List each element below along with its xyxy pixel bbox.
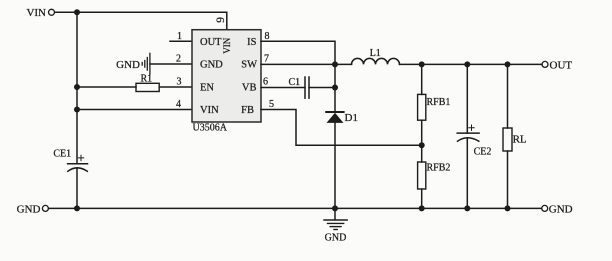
resistor RFB2: [418, 162, 451, 189]
svg-text:GND: GND: [325, 233, 347, 244]
svg-text:C1: C1: [289, 77, 301, 88]
node CE1 ground junction: [74, 205, 80, 211]
wire pin 5 FB feedback: [261, 110, 422, 146]
wire R1 to pin 3: [159, 86, 192, 88]
svg-text:GND: GND: [17, 203, 41, 215]
svg-text:SW: SW: [241, 60, 257, 71]
svg-text:D1: D1: [345, 112, 358, 124]
wire D1 anode to ground rail: [334, 123, 336, 208]
wire pin 1 stub: [170, 40, 192, 42]
node CE2 top junction: [464, 61, 470, 67]
svg-text:OUT: OUT: [550, 59, 573, 71]
svg-text:U3506A: U3506A: [193, 123, 228, 134]
IC U3506A: [192, 30, 261, 134]
node RFB2 ground junction: [419, 205, 425, 211]
svg-text:GND: GND: [200, 60, 223, 71]
wire GND rail: [49, 207, 542, 209]
svg-text:6: 6: [263, 76, 268, 87]
svg-text:EN: EN: [200, 83, 214, 94]
svg-text:OUT: OUT: [200, 37, 222, 48]
wire CE2 top lead: [466, 64, 468, 133]
node EN branch junction: [74, 84, 80, 90]
wire CE2 bottom lead: [466, 139, 468, 209]
wire pin 4: [77, 109, 192, 111]
terminal OUT: [542, 59, 572, 71]
inductor L1: [352, 48, 400, 64]
terminal GND left: [17, 203, 49, 215]
node RL top junction: [505, 61, 511, 67]
svg-text:1: 1: [177, 31, 182, 42]
wire output rail: [400, 63, 543, 65]
node VIN/top-left junction: [74, 9, 80, 15]
svg-text:3: 3: [177, 76, 182, 87]
resistor RL: [503, 128, 527, 151]
svg-text:8: 8: [265, 31, 270, 42]
diode D1: [326, 112, 358, 124]
wire pin 6 to C1: [261, 87, 305, 89]
wire C1 to VB node: [309, 87, 335, 89]
svg-text:RL: RL: [513, 134, 527, 146]
svg-text:4: 4: [176, 99, 181, 110]
svg-text:IS: IS: [247, 37, 256, 48]
wire RFB1 top lead: [421, 64, 423, 94]
node SW junction: [332, 61, 338, 67]
node RFB1 top junction: [419, 61, 425, 67]
wire pin 7 to L1: [261, 63, 352, 65]
svg-text:GND: GND: [549, 203, 573, 215]
svg-text:RFB2: RFB2: [427, 163, 451, 174]
capacitor CE2: [457, 125, 491, 157]
resistor R1: [136, 74, 159, 92]
wire EN to R1: [77, 86, 136, 88]
node FB junction: [419, 142, 425, 148]
wire CE1 bottom lead: [76, 169, 78, 209]
node VIN-pin branch junction: [74, 107, 80, 113]
wire left vertical bus: [76, 12, 78, 163]
resistor RFB1: [418, 94, 451, 120]
wire RL top lead: [507, 64, 509, 128]
node D1 ground junction: [332, 205, 338, 211]
svg-text:2: 2: [176, 53, 181, 64]
svg-text:GND: GND: [116, 59, 140, 71]
svg-text:L1: L1: [370, 48, 381, 59]
wire RFB1 to RFB2: [421, 120, 423, 162]
ground GND (bottom): [324, 208, 347, 243]
svg-text:9: 9: [215, 17, 227, 23]
terminal VIN: [26, 7, 54, 19]
node RL ground junction: [505, 205, 511, 211]
svg-text:VIN: VIN: [222, 37, 232, 53]
node CE2 ground junction: [464, 205, 470, 211]
wire pin 8 to SW node: [261, 41, 335, 64]
svg-text:VIN: VIN: [26, 7, 46, 19]
capacitor CE1: [53, 149, 87, 172]
wire RL bottom lead: [507, 151, 509, 208]
wire RFB2 bottom lead: [421, 189, 423, 208]
svg-text:RFB1: RFB1: [427, 97, 451, 108]
wire SW vertical to D1: [334, 64, 336, 112]
svg-text:VB: VB: [242, 83, 257, 94]
svg-text:R1: R1: [141, 74, 153, 85]
capacitor C1: [289, 77, 310, 98]
ground GND (pin 2): [116, 53, 150, 74]
svg-text:7: 7: [264, 53, 269, 64]
node VB junction: [332, 85, 338, 91]
wire pin 2: [150, 63, 192, 65]
svg-text:CE2: CE2: [474, 146, 492, 157]
svg-text:VIN: VIN: [200, 105, 219, 116]
svg-text:5: 5: [269, 99, 274, 110]
terminal GND right: [542, 203, 573, 215]
svg-text:CE1: CE1: [53, 149, 71, 160]
svg-text:FB: FB: [241, 105, 254, 116]
wire VIN rail to pin 9: [55, 12, 227, 29]
